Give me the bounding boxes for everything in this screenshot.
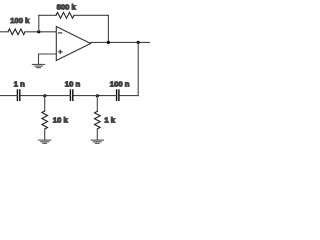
capacitor 10n: [70, 90, 72, 100]
resistor 100k: [8, 29, 25, 35]
op-amp minus pin mark: [59, 32, 62, 34]
wire feedback top left: [39, 14, 56, 16]
wire node to 10n: [73, 95, 98, 97]
wire feedback top right: [74, 14, 108, 16]
resistor 800k: [56, 12, 74, 18]
wire 1k bottom lead: [96, 129, 98, 140]
svg-text:800 k: 800 k: [57, 2, 77, 11]
wire node to 1n: [20, 95, 45, 97]
resistor 1k: [95, 111, 101, 129]
capacitor 1n: [17, 90, 19, 100]
svg-text:100 n: 100 n: [110, 80, 130, 89]
node output/feedback: [107, 41, 110, 44]
wire bottom right to 100n: [119, 95, 138, 97]
wire 10k top lead: [44, 96, 46, 111]
wire 10k bottom lead: [44, 129, 46, 140]
wire branch down right side: [137, 42, 139, 95]
wire op-amp output: [91, 41, 150, 43]
wire plus input: [39, 53, 57, 55]
wire 1n to left edge: [0, 95, 17, 97]
op-amp plus pin mark: [59, 51, 62, 53]
node junction input/feedback: [37, 30, 40, 33]
node 10k branch: [43, 94, 46, 97]
svg-text:100 k: 100 k: [10, 16, 30, 25]
svg-text:1 n: 1 n: [14, 79, 25, 88]
capacitor 100n: [117, 90, 119, 100]
node 1k branch: [96, 94, 99, 97]
ground op-amp plus: [32, 64, 44, 67]
op-amp U1: [56, 27, 90, 61]
wire 100k to op-amp inverting input: [25, 31, 56, 33]
wire 1k top lead: [96, 96, 98, 112]
svg-text:10 k: 10 k: [53, 116, 69, 125]
wire 100n to node 1k: [97, 95, 116, 97]
svg-text:10 n: 10 n: [65, 79, 81, 88]
resistor 10k: [42, 111, 48, 129]
wire 10n to node 10k: [45, 95, 71, 97]
wire plus input down: [38, 54, 40, 64]
svg-text:1 k: 1 k: [104, 116, 115, 125]
node output/filter branch: [137, 41, 140, 44]
wire feedback down to output: [107, 15, 109, 42]
ground 1k: [91, 140, 103, 143]
wire input left: [0, 31, 8, 33]
wire feedback up: [38, 15, 40, 32]
ground 10k: [39, 140, 51, 143]
